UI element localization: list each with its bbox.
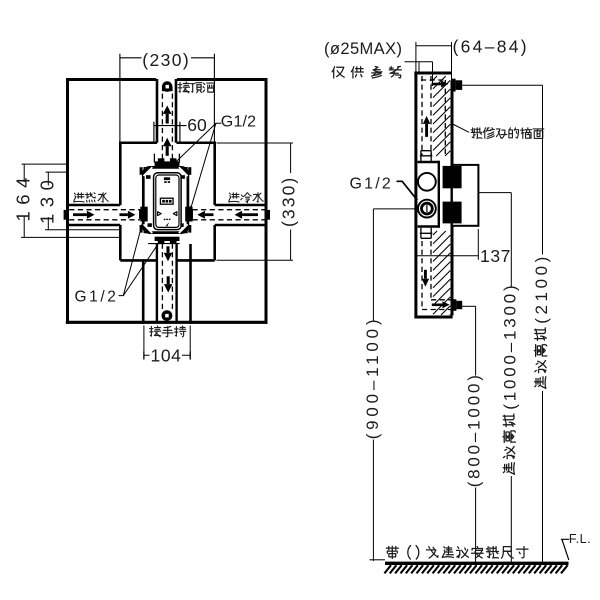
dim (800-1000) bbox=[461, 306, 476, 562]
frame corner pads bbox=[144, 167, 188, 233]
svg-text:(ø25MAX): (ø25MAX) bbox=[324, 40, 402, 58]
small marks bottom of face bbox=[164, 219, 171, 227]
floor line bbox=[385, 562, 569, 565]
in-wall body outline (side) bbox=[414, 72, 452, 317]
label 进热水 bbox=[74, 193, 108, 203]
pipe end caps left/right bbox=[64, 210, 68, 220]
valve top port bbox=[154, 154, 179, 167]
dim (230) bbox=[120, 54, 214, 142]
svg-text:G1/2: G1/2 bbox=[350, 176, 394, 193]
svg-text:60: 60 bbox=[187, 115, 207, 135]
wall hatch upper/lower bbox=[433, 76, 450, 315]
dim 137 bbox=[416, 229, 478, 260]
svg-text:(800–1000): (800–1000) bbox=[464, 372, 483, 487]
finished wall surface line bbox=[451, 81, 454, 316]
floor hatch bbox=[384, 565, 567, 573]
wall plate outer square bbox=[66, 78, 268, 324]
svg-text:G1/2: G1/2 bbox=[221, 113, 256, 130]
leader ø25 bbox=[405, 62, 433, 86]
dim 建议离地(2100) bbox=[462, 85, 542, 562]
valve side port tabs bbox=[139, 207, 193, 222]
top outlet arrow+fitting (side) bbox=[432, 79, 463, 92]
valve (side view) bbox=[418, 151, 439, 239]
side arrow icons bbox=[158, 212, 177, 216]
dim 60 bbox=[154, 122, 187, 142]
lower port circle (side) bbox=[418, 200, 436, 218]
hidden pipe dashed lines (front) bbox=[69, 94, 264, 311]
hot water arrows bbox=[73, 211, 136, 219]
bottom outlet arrow+fitting (side) bbox=[432, 299, 462, 311]
svg-text:(2100): (2100) bbox=[532, 253, 551, 324]
leader lines G1/2 bottom bbox=[119, 221, 162, 295]
flow arrows bottom channel bbox=[164, 246, 173, 292]
leader lines G1/2 top bbox=[175, 123, 221, 208]
dim (330) (rotated) bbox=[217, 143, 294, 260]
valve bottom port bbox=[148, 237, 179, 244]
svg-text:F.L.: F.L. bbox=[569, 532, 591, 546]
label 进冷水 bbox=[229, 193, 263, 203]
trim housing (side) bbox=[452, 165, 479, 226]
indicator window bbox=[160, 198, 173, 204]
svg-text:164: 164 bbox=[12, 171, 33, 221]
svg-text:(64–84): (64–84) bbox=[453, 36, 529, 56]
dim (64-84) bbox=[416, 42, 452, 81]
cross recess outline bbox=[66, 79, 266, 324]
svg-text:(330): (330) bbox=[278, 176, 298, 227]
valve body mounting frame bbox=[143, 167, 188, 232]
top shower outlet fitting bbox=[162, 81, 173, 92]
svg-text:(1000–1300): (1000–1300) bbox=[500, 282, 519, 409]
frame edge nubs bbox=[140, 167, 192, 232]
valve inner face bbox=[154, 173, 182, 230]
svg-text:130: 130 bbox=[37, 174, 58, 224]
svg-text:137: 137 bbox=[480, 246, 511, 266]
dim (900-1100) bbox=[370, 209, 416, 561]
label 装修好的墙面 bbox=[471, 128, 544, 139]
hidden pipe dashes (side) bbox=[421, 76, 456, 310]
label 接手持 bbox=[149, 326, 185, 337]
dim 建议离地(1000-1300) bbox=[478, 193, 511, 562]
dim 130 (rotated) bbox=[45, 172, 121, 230]
dim 104 bbox=[144, 326, 190, 360]
side flow arrows bbox=[422, 116, 431, 287]
handheld outlet fitting bbox=[162, 310, 173, 321]
svg-text:G1/2: G1/2 bbox=[75, 289, 119, 306]
dim 164 (rotated) bbox=[21, 164, 121, 237]
svg-text:(230): (230) bbox=[142, 50, 190, 70]
black blocks bbox=[443, 166, 462, 188]
cold water arrows bbox=[197, 211, 258, 219]
cartridge detail bbox=[164, 177, 170, 183]
svg-text:(900–1100): (900–1100) bbox=[363, 316, 382, 440]
flow arrows top channel bbox=[163, 106, 172, 156]
svg-text:104: 104 bbox=[151, 346, 182, 366]
label 接顶洒 bbox=[178, 82, 214, 93]
upper port circle (side) bbox=[418, 173, 436, 191]
note 带()为建议安装尺寸 bbox=[386, 546, 528, 560]
F.L. symbol bbox=[561, 539, 569, 560]
